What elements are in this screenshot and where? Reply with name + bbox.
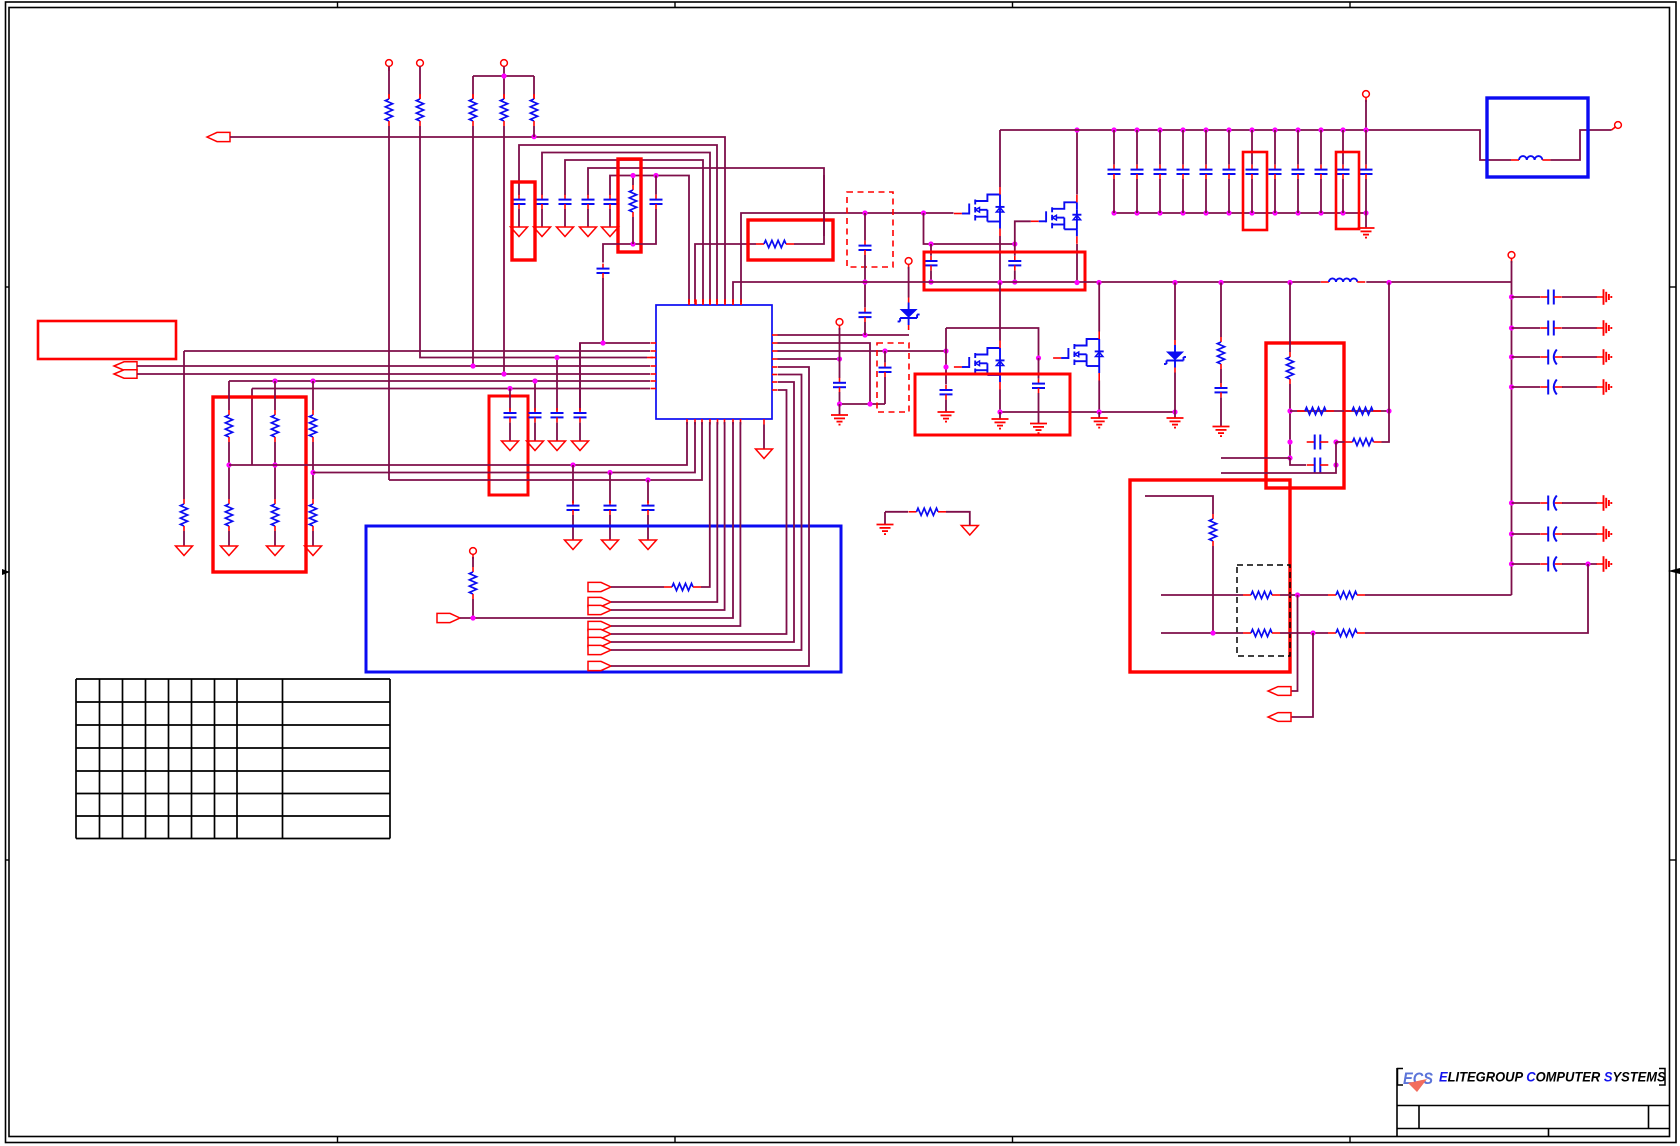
capacitor C39: [1512, 527, 1598, 542]
mosfet Q1: [954, 187, 1005, 236]
resistor R22: [1345, 438, 1382, 445]
junction net465-C12: [570, 462, 575, 467]
wire R4 column: [503, 126, 505, 374]
mosfet Q4: [1053, 332, 1104, 381]
resistor R17: [909, 508, 947, 515]
capacitor C21: [1008, 244, 1021, 282]
capacitor C10: [551, 408, 564, 422]
junction net404 a: [837, 401, 842, 406]
wire column 229 upper: [228, 381, 230, 410]
capacitor C23: [1131, 130, 1144, 213]
ground GND4: [580, 227, 597, 237]
capacitor C19: [859, 255, 872, 335]
power port P3: [501, 60, 508, 76]
wire net366: [137, 365, 650, 367]
junction net412 b: [1097, 409, 1102, 414]
mosfet Q3: [954, 341, 1005, 390]
wire R6 top lead: [632, 178, 634, 185]
resistor R9: [225, 410, 232, 442]
wire net465 right: [1290, 458, 1306, 465]
resistor R15: [469, 567, 476, 599]
junction net465 r: [1333, 462, 1338, 467]
wire cap 573 ground lead: [572, 515, 574, 540]
ground GD648: [640, 540, 657, 550]
junction net213 riser: [921, 210, 926, 215]
resistor R6: [629, 185, 636, 217]
capacitor C4: [582, 195, 595, 209]
wire net642: [611, 382, 794, 642]
resistor R25: [1328, 591, 1365, 598]
junction net458: [1287, 455, 1292, 460]
ground GC557: [549, 441, 566, 451]
capacitor C7: [597, 264, 610, 278]
highlight box HB8: [915, 374, 1070, 435]
wire net412: [1000, 411, 1175, 413]
connector arrow A3: [114, 370, 137, 378]
junction net282-C21: [1012, 279, 1017, 284]
junction net472-C13: [607, 470, 612, 475]
ground GS2: [1597, 349, 1612, 365]
wire Q1 drain up: [999, 130, 1001, 187]
wire C7 down: [602, 278, 604, 343]
wire net404: [840, 403, 886, 405]
resistor R5: [530, 94, 537, 126]
ground G275: [267, 546, 284, 556]
wire cap 535 to ground: [534, 423, 536, 442]
highlight box HB11: [1266, 343, 1344, 488]
ground GE1: [831, 415, 848, 425]
wire Q3 drain: [999, 283, 1001, 341]
wire net595 c: [1365, 594, 1512, 596]
ground GND1: [511, 227, 528, 237]
wire column 313 middle: [312, 442, 314, 499]
wire HB12 top: [1145, 496, 1213, 514]
wire column 275 lower: [274, 531, 276, 546]
wire net351: [184, 350, 650, 352]
junction rc5: [1509, 531, 1514, 536]
junction net351-C16: [882, 348, 887, 353]
power port P2: [417, 60, 424, 99]
wire arrow riser 1: [1291, 595, 1298, 691]
wire cap column 535: [534, 381, 536, 411]
wire net411: [1290, 410, 1389, 412]
junction net480-C14: [645, 477, 650, 482]
junction net282-C20: [928, 279, 933, 284]
ground GR8: [176, 546, 193, 556]
dashed box DB2: [877, 343, 909, 412]
wire riser 1389: [1382, 283, 1390, 443]
ground GE8: [877, 525, 894, 535]
junction rc6: [1509, 561, 1514, 566]
wire net374: [137, 373, 650, 375]
mosfet Q2: [1031, 195, 1082, 244]
junction net465 b: [272, 462, 277, 467]
junctions cap bank: [1111, 127, 1368, 215]
wire rail213: [1114, 212, 1366, 214]
wire Q3 gate stem: [945, 351, 947, 385]
wire bundle line 3: [565, 160, 703, 305]
junction rc3: [1509, 384, 1514, 389]
ground GE4: [1030, 424, 1047, 434]
ground GD610: [602, 540, 619, 550]
connector arrow A10: [588, 637, 611, 646]
capacitor C40: [1512, 557, 1598, 572]
wire R7 right riser: [823, 175, 825, 236]
ground GS5: [1597, 526, 1612, 542]
highlight box HB12: [1130, 480, 1290, 672]
wire Q2 source down: [1076, 244, 1078, 283]
wire net388: [252, 389, 650, 466]
junction net366-R3: [470, 363, 475, 368]
junction net351 riser: [943, 348, 948, 353]
wire cap 580 to ground: [579, 423, 581, 442]
wire net666: [611, 367, 809, 666]
inductor L2: [1511, 156, 1550, 160]
wire net587 left: [611, 586, 664, 588]
wire net633 c: [1365, 564, 1588, 633]
junction net465 a: [226, 462, 231, 467]
ground GS6: [1597, 556, 1612, 572]
wire net343: [580, 343, 650, 410]
junction net282 i: [1218, 280, 1223, 285]
wire cap 648 ground lead: [647, 515, 649, 540]
wire bundle line 4: [588, 168, 824, 244]
ground GC510: [502, 441, 519, 451]
resistor R3: [469, 94, 476, 126]
junction net282 h: [1172, 280, 1177, 285]
junction net282 f: [1074, 280, 1079, 285]
resistor R24: [1243, 591, 1280, 598]
table: [76, 679, 390, 839]
capacitor C41: [940, 385, 953, 412]
connector arrow A5: [588, 582, 611, 591]
capacitor C9: [529, 408, 542, 422]
resistor R20: [1297, 407, 1334, 414]
resistor R13: [271, 499, 278, 531]
wire pullup rail: [473, 76, 534, 99]
wire net595 a: [1161, 594, 1243, 596]
wire net626: [611, 422, 740, 626]
zener diode D1: [898, 298, 920, 331]
wire Q2 gate: [1015, 221, 1031, 244]
capacitor C25: [1177, 130, 1190, 213]
power port P7: [1363, 91, 1370, 130]
ground GE3: [938, 412, 955, 422]
junction net595: [1295, 592, 1300, 597]
resistor R2: [416, 94, 423, 126]
ground GE7: [1167, 418, 1184, 428]
capacitor C1: [513, 195, 526, 209]
junction net472 c: [310, 470, 315, 475]
capacitor C24: [1154, 130, 1167, 213]
wire R8 to ground: [183, 531, 185, 546]
wire main net282: [733, 282, 1321, 305]
wire C5 to ground: [609, 209, 611, 227]
ground GC535: [527, 441, 544, 451]
zener diode D2: [1164, 283, 1186, 373]
capacitor C6: [650, 176, 663, 210]
resistor R26: [1243, 629, 1280, 636]
wire cap column 557: [556, 358, 558, 411]
IC U1 pins: [651, 300, 778, 425]
highlight box HB7: [924, 252, 1085, 290]
capacitor C13: [604, 501, 617, 515]
junction net442 a: [1287, 439, 1292, 444]
wire column 275 upper: [274, 381, 276, 410]
wire rail130: [1000, 130, 1511, 160]
wire C1 to ground: [518, 209, 520, 227]
wire right column: [1511, 282, 1513, 595]
junction bundle-resistor: [630, 173, 635, 178]
wire C3 to ground: [564, 209, 566, 227]
wire net381: [229, 380, 650, 382]
junction net374-R4: [501, 371, 506, 376]
ground IC pin: [756, 425, 773, 459]
function box BB2: [1487, 98, 1588, 177]
wire Q3 source down: [999, 390, 1001, 413]
ground GE5: [992, 419, 1009, 429]
connector arrow A7: [588, 605, 611, 614]
junction net411 a: [1287, 408, 1292, 413]
capacitor C27: [1223, 130, 1236, 213]
capacitor C45: [1307, 458, 1329, 473]
ECS logo: [1403, 1069, 1434, 1092]
ground GND3: [557, 227, 574, 237]
junction on pullup rail: [501, 73, 506, 78]
junction net618: [470, 615, 475, 620]
connector arrow A4: [437, 613, 460, 622]
wire R3 column: [472, 126, 474, 366]
junction net282 j: [1287, 280, 1292, 285]
wire net351 column: [183, 351, 185, 499]
wire bundle line 5: [610, 176, 689, 306]
junction net282-C18: [862, 279, 867, 284]
capacitor C29: [1269, 130, 1282, 213]
wire bundle line 1: [519, 145, 717, 305]
junction net359: [837, 356, 842, 361]
wire net633 b: [1280, 632, 1328, 634]
capacitor C35: [1512, 321, 1598, 336]
resistor R23: [1209, 514, 1216, 546]
junction R6 bottom: [630, 217, 635, 247]
wire net343 right: [778, 343, 871, 404]
junction net564: [1585, 561, 1590, 566]
junction rc2: [1509, 354, 1514, 359]
wire R19 down: [1289, 384, 1291, 458]
wire net359 right: [778, 358, 840, 360]
wire gnd stem a: [999, 412, 1001, 419]
wire net602: [611, 422, 717, 602]
dashed box DB1: [847, 192, 893, 267]
capacitor C11: [574, 408, 587, 422]
resistor R27: [1328, 629, 1365, 636]
power port P6: [836, 319, 843, 359]
wire net335: [778, 334, 910, 336]
capacitor C3: [559, 195, 572, 209]
connector arrow A9: [588, 629, 611, 638]
wire net587 right: [701, 422, 710, 587]
wire Q2 drain up: [1076, 130, 1078, 195]
resistor R8: [180, 499, 187, 531]
junction net343-C7: [600, 340, 605, 345]
junction R5 to bus: [531, 126, 536, 139]
highlight box HB6: [489, 396, 528, 495]
highlight box HB1: [512, 182, 535, 260]
resistor R12: [225, 499, 232, 531]
wire net633 a: [1161, 632, 1243, 634]
wire net328: [946, 328, 1039, 358]
capacitor C38: [1512, 496, 1598, 511]
power port P4: [470, 548, 477, 567]
capacitor C34: [1512, 290, 1598, 305]
wire net634: [611, 390, 787, 634]
junction net412 a: [997, 409, 1002, 414]
wire R15 to net618: [472, 599, 474, 618]
inductor L1: [1321, 278, 1365, 282]
wire column 313 upper: [312, 381, 314, 410]
connector arrow A14: [1268, 713, 1291, 722]
wire column 229 middle: [228, 442, 230, 499]
junction net633: [1310, 630, 1315, 635]
power port P9: [1508, 252, 1515, 282]
wire net473 right: [1221, 465, 1336, 473]
wire net244: [924, 213, 1015, 244]
junction net388-C8: [507, 386, 512, 391]
wire port P6 column: [839, 359, 841, 378]
junction net335-C15: [862, 332, 867, 337]
wire Q1 source down: [999, 236, 1001, 283]
wire cap column 573: [572, 465, 574, 503]
ground G313: [305, 546, 322, 556]
wire res pair left: [885, 512, 908, 524]
wire net465: [229, 422, 687, 465]
capacitor C14: [642, 501, 655, 515]
junction net633-R23: [1210, 630, 1215, 635]
power port P1: [386, 60, 393, 99]
function box BB1: [366, 526, 841, 672]
wire R23 down: [1212, 546, 1214, 633]
capacitor C26: [1200, 130, 1213, 213]
wire net595 b: [1280, 594, 1328, 596]
capacitor C8: [504, 408, 517, 422]
wire C17 to net404: [839, 392, 841, 404]
wire IC riser to resistor box: [695, 244, 756, 305]
wire C6 bottom to cap column: [603, 209, 656, 263]
wire column 275 middle: [274, 442, 276, 499]
ground GD573: [565, 540, 582, 550]
wire net328 down: [945, 328, 947, 351]
resistor R7: [756, 240, 794, 247]
wire R18-C43: [1220, 369, 1222, 383]
junction net411 b: [1386, 408, 1391, 413]
ground G229: [221, 546, 238, 556]
junction net404 b: [867, 401, 872, 406]
wire net472: [313, 422, 695, 473]
resistor R16: [664, 583, 701, 590]
wire rail130 right: [1550, 130, 1611, 160]
capacitor C42: [1032, 358, 1045, 423]
connector arrow A6: [588, 597, 611, 606]
resistor R19: [1286, 352, 1293, 384]
wire cap column 610: [609, 473, 611, 504]
wire cap column 580: [579, 343, 581, 411]
highlight box HB9: [1243, 152, 1267, 230]
resistor R18: [1217, 337, 1224, 369]
wire bundle line 2: [542, 153, 710, 306]
wire Q4 source: [1098, 381, 1100, 413]
ground GE9: [1213, 427, 1230, 437]
highlight box HB3: [748, 220, 833, 260]
junction net282 g: [1096, 280, 1101, 285]
wire C4 to ground: [587, 209, 589, 227]
wire rail213 ground: [1365, 213, 1367, 228]
junction net358: [1036, 355, 1041, 360]
junction rc1: [1509, 325, 1514, 330]
junction rail-Q2: [1074, 127, 1079, 132]
capacitor C18: [859, 213, 872, 255]
ground GS4: [1597, 495, 1612, 511]
highlight box HB10: [1336, 152, 1359, 229]
junction net282 k: [1386, 280, 1391, 285]
connector arrow A12: [588, 661, 611, 670]
capacitor C30: [1292, 130, 1305, 213]
junction net213-C18: [862, 210, 867, 215]
resistor R10: [271, 410, 278, 442]
connector arrow A2: [114, 362, 137, 370]
ground GS3: [1597, 379, 1612, 395]
svg-text:ELITEGROUP COMPUTER SYSTEMS: ELITEGROUP COMPUTER SYSTEMS: [1439, 1069, 1666, 1084]
wire gnd stem b: [1098, 412, 1100, 418]
capacitor C22: [1108, 130, 1121, 213]
wire R19 column: [1289, 283, 1291, 353]
wire net610: [611, 422, 725, 610]
wire net618: [460, 422, 733, 618]
wire R1 column: [388, 126, 390, 480]
wire Q4 drain: [1098, 283, 1100, 332]
wire cap 557 to ground: [556, 423, 558, 442]
title text: [1439, 1069, 1666, 1084]
wire net404 ground stem: [839, 404, 841, 415]
wire net213: [741, 213, 954, 305]
wire cap 610 ground lead: [609, 515, 611, 540]
capacitor C20: [925, 244, 938, 282]
dashed box DB3: [1237, 565, 1290, 656]
resistor R14: [309, 499, 316, 531]
junction bundle-C6: [653, 173, 658, 178]
wire net282 right: [1366, 281, 1511, 283]
wire D2 to gnd: [1174, 373, 1176, 413]
ground GE6: [1091, 418, 1108, 428]
wire net458: [1221, 457, 1290, 459]
IC U1: [656, 305, 772, 419]
junction net244-C20: [928, 241, 933, 246]
wire res pair right: [946, 512, 970, 526]
wire net480: [389, 422, 702, 480]
wire C44-R22: [1336, 441, 1345, 443]
power port P5: [905, 258, 912, 298]
connector arrow A11: [588, 645, 611, 654]
capacitor C28: [1246, 130, 1259, 213]
wire R2 column: [420, 126, 653, 358]
capacitor C37: [1512, 380, 1598, 395]
junction Q3 gate: [943, 364, 948, 369]
wire column 229 lower: [228, 531, 230, 546]
wire main bus to IC pin: [230, 137, 725, 305]
highlight box HB2: [618, 159, 641, 252]
ground GC580: [572, 441, 589, 451]
ground GND5: [602, 227, 619, 237]
wire gnd stem c: [1174, 412, 1176, 418]
